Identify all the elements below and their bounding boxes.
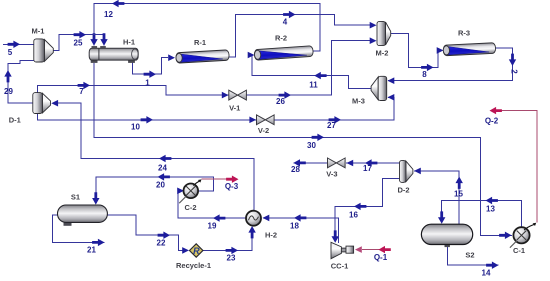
svg-text:17: 17 <box>363 164 372 173</box>
energy stream Q-1 (compressor CC-1 duty) <box>362 249 389 251</box>
svg-text:R-3: R-3 <box>458 29 470 38</box>
wire stream 7 (D-1 top outlet to valve V-1) <box>38 85 229 95</box>
svg-text:Q-3: Q-3 <box>225 182 239 191</box>
wire stream 23 (Recycle-1 outlet to H-2) <box>203 229 252 250</box>
splitter D-2 <box>400 160 413 182</box>
wire stream 13 (C-1 outlet to separator S2) <box>442 201 522 228</box>
svg-text:S2: S2 <box>465 251 474 260</box>
wire stream 30 (H-1 bottom outlet to cooler C-1) <box>94 63 512 235</box>
svg-text:D-1: D-1 <box>9 116 21 125</box>
wire stream 24 (H-2 outlet to splitter D-1) <box>58 103 254 211</box>
wire stream 27 (valve V-2 outlet to mixer M-3) <box>274 97 394 120</box>
wire stream 15 (S2 vapour outlet to splitter D-2) <box>414 171 459 224</box>
svg-text:19: 19 <box>208 222 217 231</box>
cooler C-1 <box>513 227 529 243</box>
svg-text:12: 12 <box>104 10 113 19</box>
wire stream 11 (M-3 outlet to reactor R-2) <box>252 55 371 89</box>
svg-text:13: 13 <box>486 205 495 214</box>
svg-text:4: 4 <box>283 18 288 27</box>
svg-text:M-1: M-1 <box>32 27 45 36</box>
mixer M-2 <box>377 21 391 45</box>
svg-text:V-3: V-3 <box>326 170 337 179</box>
wire stream 25 (M-1 outlet to H-1 top) <box>53 35 104 51</box>
wire stream 12 (R-2 outlet to H-1 top) <box>94 4 320 52</box>
svg-text:Recycle-1: Recycle-1 <box>176 261 211 270</box>
wire stream 22 (S1 outlet to Recycle-1) <box>107 215 184 250</box>
svg-text:15: 15 <box>454 190 463 199</box>
valve V-1 <box>229 90 247 100</box>
svg-text:V-2: V-2 <box>258 126 269 135</box>
svg-text:H-1: H-1 <box>123 38 135 47</box>
wire stream 19 (H-2 outlet to cooler C-2) <box>178 191 246 218</box>
plug flow reactor R-3 <box>443 43 496 56</box>
wire stream 5 (feed into M-1) <box>3 43 34 45</box>
wire stream 8 (M-2 outlet to reactor R-3) <box>391 34 442 68</box>
svg-text:21: 21 <box>87 246 96 255</box>
svg-text:25: 25 <box>74 39 83 48</box>
wire stream 21 (S1 liquid product) <box>53 215 105 242</box>
svg-text:29: 29 <box>4 87 13 96</box>
svg-text:8: 8 <box>422 70 427 79</box>
svg-text:H-2: H-2 <box>265 231 277 240</box>
svg-text:C-1: C-1 <box>513 246 525 255</box>
wire stream 16 (D-2 bottom outlet to compressor CC-1) <box>335 178 400 240</box>
svg-text:M-3: M-3 <box>352 97 365 106</box>
svg-text:R-2: R-2 <box>275 34 287 43</box>
svg-text:M-2: M-2 <box>376 49 389 58</box>
wire stream 26 (valve V-1 outlet to mixer M-2) <box>246 41 370 95</box>
svg-text:11: 11 <box>309 81 318 90</box>
wire stream 2 (R-3 outlet down and left to mixer M-3) <box>388 48 513 81</box>
heater H-1 (shell and tube) <box>89 46 138 63</box>
svg-text:23: 23 <box>227 254 236 263</box>
svg-text:16: 16 <box>349 211 358 220</box>
valve V-2 <box>257 115 275 125</box>
wire stream 17 (D-2 outlet to valve V-3) <box>346 162 400 164</box>
svg-text:Q-2: Q-2 <box>485 117 499 126</box>
wire stream 28 (valve V-3 product) <box>293 162 327 164</box>
compressor CC-1 <box>331 242 354 258</box>
svg-text:30: 30 <box>307 141 316 150</box>
separator S2 <box>421 224 472 247</box>
svg-text:10: 10 <box>131 123 140 132</box>
svg-text:V-1: V-1 <box>229 104 240 113</box>
svg-text:14: 14 <box>482 269 491 278</box>
svg-text:C-2: C-2 <box>184 203 196 212</box>
separator S1 <box>58 205 108 226</box>
svg-text:Q-1: Q-1 <box>374 253 388 262</box>
mixer M-1 <box>34 39 54 62</box>
svg-text:7: 7 <box>79 87 84 96</box>
svg-text:24: 24 <box>158 164 167 173</box>
svg-text:5: 5 <box>8 48 13 57</box>
wire stream 1 (H-1 outlet to reactor R-1) <box>132 58 168 74</box>
energy stream Q-2 (heat removed from cooler C-1) <box>501 111 537 223</box>
svg-text:1: 1 <box>145 79 150 88</box>
svg-text:18: 18 <box>290 222 299 231</box>
svg-text:20: 20 <box>156 181 165 190</box>
svg-text:CC-1: CC-1 <box>331 262 349 271</box>
cooler C-2 <box>184 184 199 199</box>
wire stream 20 (C-2 outlet to separator S1) <box>96 177 214 204</box>
wire stream 4 (R-1 outlet to mixer M-2) <box>229 15 370 57</box>
wire stream 14 (S2 liquid product) <box>448 245 499 266</box>
splitter D-1 <box>33 93 51 114</box>
heat exchanger H-2 <box>246 211 261 226</box>
svg-text:2: 2 <box>510 69 519 74</box>
wire stream 10 (D-1 bottom outlet to valve V-2) <box>38 114 257 120</box>
plug flow reactor R-2 <box>254 46 313 61</box>
plug flow reactor R-1 <box>176 50 230 63</box>
valve V-3 <box>328 158 346 168</box>
svg-text:22: 22 <box>157 239 166 248</box>
wire stream 29 (D-1 left outlet up to M-1) <box>8 61 34 104</box>
svg-text:26: 26 <box>276 97 285 106</box>
svg-text:R-1: R-1 <box>194 38 206 47</box>
wire stream 18 (CC-1 outlet to heat exchanger H-2) <box>263 218 339 243</box>
svg-text:D-2: D-2 <box>397 186 409 195</box>
svg-text:S1: S1 <box>71 193 80 202</box>
svg-text:27: 27 <box>327 121 336 130</box>
svg-text:28: 28 <box>291 165 300 174</box>
mixer M-3 (mirrored, tip left) <box>371 76 387 100</box>
recycle block Recycle-1 <box>190 244 203 257</box>
energy stream Q-3 (heat removed from cooler C-2) <box>202 178 229 180</box>
svg-text:R: R <box>193 246 200 256</box>
